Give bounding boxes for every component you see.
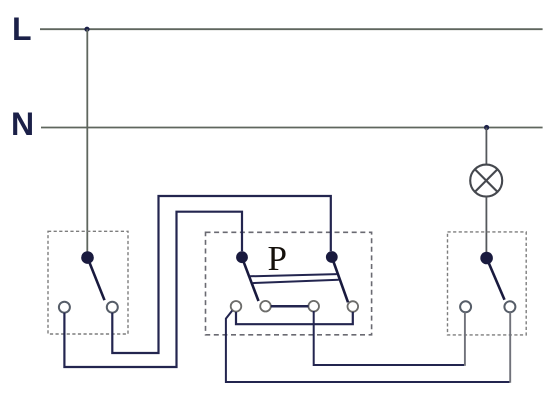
switch S1 terminal 1 (59, 302, 70, 313)
switch S3 common node (480, 252, 493, 265)
wire N rail (41, 127, 543, 129)
switch S2 lever left (242, 258, 259, 301)
switch S2 terminal 2 (260, 301, 271, 312)
wire lamp to switch S3 common (485, 197, 487, 253)
switch S2 terminal 4 (348, 301, 359, 312)
wire link terminal2-terminal3 (271, 305, 309, 308)
svg-text:L: L (12, 11, 32, 47)
wire riser to S3 terminal 1 (464, 312, 466, 366)
switch S2 common node right (326, 251, 338, 263)
switch S2 common node left (236, 251, 248, 263)
switch S2 crossbar lower (253, 280, 339, 283)
switch S2 enclosure (intermediate) (206, 232, 372, 334)
switch S1 enclosure (48, 231, 128, 334)
lamp E1 (470, 165, 502, 197)
svg-text:N: N (11, 106, 34, 142)
wire N drop to lamp (485, 128, 487, 165)
svg-text:P: P (268, 239, 287, 278)
switch S3 enclosure (448, 232, 527, 335)
switch S1 lever (88, 258, 105, 301)
switch S2 terminal 1 (231, 301, 242, 312)
node junction on N (484, 125, 489, 130)
switch S3 terminal 2 (504, 301, 515, 312)
wire S2 terminal3 to S3 terminal1 (traveller) (314, 311, 465, 365)
switch S3 lever (487, 258, 505, 300)
switch S2 crossbar upper (250, 274, 337, 276)
switch S2 terminal 3 (308, 301, 319, 312)
wire S1 terminal1 to S2 left common (traveller) (64, 212, 242, 367)
node junction on L (84, 27, 89, 32)
switch S1 common node (81, 251, 94, 264)
wire riser to S3 terminal 2 (509, 312, 511, 383)
wire S2 terminal1 to S3 terminal2 (traveller) (226, 311, 510, 382)
switch S1 terminal 2 (107, 302, 118, 313)
wire S1 terminal2 to S2 right common (traveller) (112, 196, 330, 353)
wire L rail (40, 28, 543, 30)
switch S3 terminal 1 (460, 301, 471, 312)
switch S2 lever right (332, 257, 348, 302)
wire L drop to switch S1 common (86, 29, 88, 253)
wire bar terminal1-terminal4 (236, 312, 353, 324)
